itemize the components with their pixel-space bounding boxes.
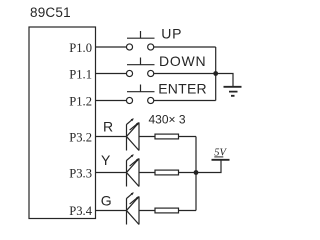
svg-text:P3.3: P3.3 bbox=[69, 166, 92, 180]
svg-text:89C51: 89C51 bbox=[30, 5, 71, 20]
svg-text:DOWN: DOWN bbox=[159, 53, 206, 69]
svg-text:P1.2: P1.2 bbox=[69, 94, 92, 108]
svg-text:P3.2: P3.2 bbox=[69, 130, 92, 144]
svg-text:UP: UP bbox=[161, 25, 182, 41]
svg-text:ENTER: ENTER bbox=[158, 80, 207, 96]
svg-text:G: G bbox=[101, 193, 112, 209]
svg-text:P1.1: P1.1 bbox=[69, 67, 92, 81]
svg-text:5V: 5V bbox=[214, 148, 227, 159]
svg-text:P3.4: P3.4 bbox=[69, 204, 92, 218]
svg-text:430× 3: 430× 3 bbox=[149, 113, 186, 127]
svg-text:P1.0: P1.0 bbox=[69, 41, 92, 55]
svg-text:Y: Y bbox=[101, 152, 111, 168]
svg-text:R: R bbox=[103, 119, 113, 135]
